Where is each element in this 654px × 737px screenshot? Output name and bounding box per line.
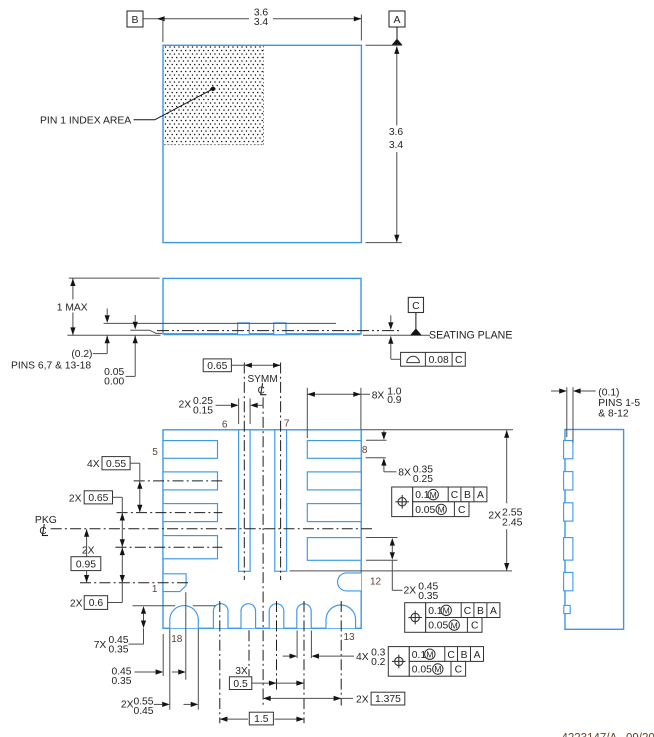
svg-text:M: M	[430, 490, 437, 500]
pin 16 centerline	[248, 630, 250, 676]
svg-text:2X: 2X	[356, 694, 369, 705]
datum A flag	[389, 11, 405, 27]
lead top reference line	[104, 322, 336, 324]
pin 6 left edge extension	[238, 399, 240, 425]
svg-text:B: B	[131, 14, 138, 26]
svg-text:0.95: 0.95	[76, 559, 96, 570]
svg-text:0.05: 0.05	[412, 665, 432, 676]
svg-text:7X: 7X	[94, 640, 107, 651]
pin 6 right edge extension	[249, 399, 251, 425]
pin 17	[213, 604, 228, 629]
svg-text:C: C	[451, 490, 459, 501]
pin 11 top extension	[366, 537, 398, 539]
body left edge extension	[162, 634, 164, 676]
seating plane left segment	[67, 334, 160, 336]
dimension 2X 2.55/2.45	[506, 430, 508, 503]
lead bottom step line	[130, 330, 162, 333]
dimension 2X 1.375	[263, 697, 353, 699]
package horizontal centerline PKG	[51, 528, 372, 530]
pin 14 centerline	[303, 601, 305, 723]
dimension 1.5	[220, 718, 248, 720]
seating plane phantom line	[157, 330, 402, 332]
pin 8 top extension	[366, 439, 387, 441]
pin 1	[163, 574, 186, 592]
bottom view: package body	[163, 430, 361, 629]
pin 8 inner end extension	[306, 388, 308, 438]
svg-text:A: A	[474, 650, 481, 661]
position tolerance frame middle	[405, 603, 500, 633]
svg-text:12: 12	[370, 577, 382, 588]
pin 14 left extension	[296, 631, 298, 659]
svg-text:0.5: 0.5	[233, 679, 248, 690]
long extension line at body top right	[361, 429, 513, 431]
bottom extension line	[366, 242, 402, 244]
side pin 10 bump	[564, 503, 573, 521]
pin 4 row centerline	[134, 480, 223, 482]
svg-text:B: B	[477, 606, 484, 617]
dimension 0.65 between pin6/pin7 centerlines	[203, 359, 231, 372]
pkg centerline glyph	[39, 524, 48, 537]
svg-text:0.1: 0.1	[412, 650, 427, 661]
svg-text:0.45: 0.45	[133, 706, 153, 717]
svg-text:C: C	[412, 300, 420, 312]
pin 2 row centerline	[115, 546, 222, 548]
pin 8 bottom extension	[366, 457, 386, 459]
svg-text:M: M	[438, 505, 445, 515]
svg-text:6: 6	[222, 419, 228, 430]
svg-text:1.375: 1.375	[375, 694, 401, 705]
(0.2) dimension arrows	[106, 309, 108, 316]
svg-text:2X: 2X	[70, 598, 83, 609]
bump top extension	[133, 605, 176, 607]
svg-text:M: M	[451, 620, 458, 630]
side pin 18 small bump	[564, 605, 570, 613]
svg-text:2X: 2X	[121, 699, 134, 710]
long extension line pin 12 top	[290, 570, 512, 572]
svg-text:13: 13	[343, 632, 355, 643]
dimension 2X 0.55/0.45 bump 18 width	[154, 703, 162, 705]
svg-text:2X: 2X	[404, 585, 417, 596]
svg-text:B: B	[461, 650, 468, 661]
svg-text:(0.2): (0.2)	[71, 349, 92, 360]
svg-text:(0.1): (0.1)	[598, 388, 619, 399]
svg-text:0.35: 0.35	[108, 645, 128, 656]
svg-text:A: A	[477, 490, 484, 501]
0.05/0.00 dimension arrows	[134, 315, 136, 322]
svg-text:0.2: 0.2	[371, 657, 386, 668]
pin 3	[163, 504, 218, 522]
svg-text:3X: 3X	[235, 666, 248, 677]
pin 6	[239, 430, 251, 572]
svg-text:PIN 1 INDEX AREA: PIN 1 INDEX AREA	[40, 115, 131, 126]
svg-text:C: C	[447, 650, 455, 661]
datum A triangle	[391, 39, 402, 46]
svg-text:C: C	[471, 621, 479, 632]
side pin 11 bump	[564, 538, 573, 561]
left extension line	[162, 19, 164, 42]
body right edge extension up	[360, 388, 362, 430]
bump right extension	[572, 387, 574, 443]
svg-text:M: M	[443, 606, 450, 616]
svg-text:PKG: PKG	[35, 515, 57, 526]
svg-text:2X: 2X	[179, 400, 192, 411]
datum C flag	[408, 297, 423, 312]
svg-text:1.5: 1.5	[254, 714, 269, 725]
svg-text:0.1: 0.1	[428, 606, 443, 617]
svg-text:0.1: 0.1	[415, 490, 430, 501]
pin 7	[275, 430, 287, 572]
side pin 12 bump	[564, 572, 573, 590]
bump 18 side extensions	[169, 629, 171, 710]
pin 17 centerline	[219, 601, 221, 723]
svg-text:8: 8	[362, 445, 368, 456]
svg-text:8X: 8X	[398, 467, 411, 478]
pin 13 centerline	[340, 601, 342, 706]
pin 7 centerline	[280, 363, 282, 581]
svg-text:SEATING PLANE: SEATING PLANE	[429, 329, 512, 341]
pin 3 row centerline	[117, 512, 223, 514]
pin 11	[307, 538, 361, 561]
pin 16	[241, 604, 256, 629]
position tolerance frame upper	[392, 487, 487, 517]
pin 18	[170, 606, 199, 629]
svg-text:C: C	[455, 665, 463, 676]
datum B flag	[127, 11, 143, 27]
pin 6 centerline	[243, 363, 245, 581]
svg-text:3.4: 3.4	[389, 140, 404, 151]
svg-text:0.65: 0.65	[88, 493, 108, 504]
pin 13	[326, 605, 356, 628]
svg-text:7: 7	[284, 418, 290, 429]
pin 14	[297, 604, 311, 629]
svg-text:C: C	[455, 355, 463, 366]
svg-text:1 MAX: 1 MAX	[57, 303, 88, 314]
stipple bottom dotted edge	[164, 144, 264, 146]
pin 4	[163, 472, 218, 490]
svg-text:0.00: 0.00	[104, 377, 124, 388]
top view: package body outline	[163, 45, 361, 242]
svg-text:8X: 8X	[372, 390, 385, 401]
svg-text:0.05: 0.05	[415, 505, 435, 516]
side pin 9 bump	[564, 472, 573, 490]
seating plane right segment	[363, 334, 430, 336]
top extension line	[366, 44, 402, 46]
vertical symmetry centerline	[262, 398, 264, 706]
svg-text:09/2014: 09/2014	[626, 732, 654, 737]
svg-text:0.35: 0.35	[418, 591, 438, 602]
svg-text:0.25: 0.25	[413, 474, 433, 485]
svg-text:3.6: 3.6	[389, 127, 404, 138]
pin 15 centerline	[276, 601, 278, 690]
side view lead 6	[238, 323, 250, 335]
svg-text:0.05: 0.05	[428, 621, 448, 632]
svg-text:2X: 2X	[82, 546, 95, 557]
side pin 8 bump	[564, 441, 573, 459]
datum C triangle	[410, 328, 422, 335]
stipple right dotted edge	[263, 46, 265, 145]
pin 1 right edge extension	[185, 592, 187, 680]
svg-text:0.35: 0.35	[111, 676, 131, 687]
svg-text:0.15: 0.15	[193, 405, 213, 416]
svg-text:0.9: 0.9	[387, 395, 402, 406]
svg-text:5: 5	[152, 447, 158, 458]
svg-text:1: 1	[152, 584, 158, 595]
bump left extension	[566, 387, 568, 437]
svg-text:4223147/A: 4223147/A	[562, 732, 618, 737]
svg-text:2X: 2X	[69, 494, 82, 505]
symm centerline glyph	[258, 383, 267, 396]
right extension line	[360, 15, 362, 41]
pin 9	[307, 472, 361, 490]
1 MAX top extension	[69, 277, 160, 279]
pin 1 row centerline	[80, 582, 190, 584]
svg-text:4X: 4X	[356, 652, 369, 663]
pin 15	[269, 604, 284, 629]
pin 5	[163, 441, 218, 459]
svg-text:3.4: 3.4	[254, 17, 269, 28]
bump top extension segment	[193, 605, 216, 607]
side view thick bottom edge	[164, 333, 360, 335]
dimension 0.45/0.35 pin 1 width	[135, 671, 156, 673]
pin 1 index area stipple	[164, 46, 264, 145]
pin 2	[163, 536, 218, 559]
pin 12	[338, 573, 362, 591]
svg-text:A: A	[490, 606, 497, 617]
svg-text:& 8-12: & 8-12	[598, 408, 629, 419]
svg-text:4X: 4X	[87, 459, 100, 470]
position tolerance frame lower	[388, 647, 483, 677]
right side view: package body	[565, 430, 624, 630]
profile tolerance frame 0.08 C	[401, 352, 466, 366]
side view: package body	[163, 278, 361, 334]
pin 11 bottom extension	[366, 559, 398, 561]
svg-text:M: M	[426, 649, 433, 659]
svg-text:0.65: 0.65	[207, 361, 227, 372]
svg-text:18: 18	[171, 634, 183, 645]
svg-text:M: M	[434, 664, 441, 674]
pin 10	[307, 504, 361, 522]
svg-text:0.6: 0.6	[89, 598, 104, 609]
horizontal dimension 3.6/3.4	[143, 18, 249, 20]
svg-text:0.55: 0.55	[106, 459, 126, 470]
svg-text:A: A	[393, 14, 400, 26]
svg-text:PINS 6,7 & 13-18: PINS 6,7 & 13-18	[11, 360, 91, 371]
pin 8	[307, 441, 361, 459]
svg-text:0.08: 0.08	[429, 355, 449, 366]
svg-text:C: C	[458, 505, 466, 516]
svg-text:C: C	[464, 606, 472, 617]
svg-text:2X: 2X	[488, 510, 501, 521]
svg-text:2.45: 2.45	[502, 516, 523, 528]
pin 14 right extension	[310, 631, 312, 659]
side view lead 7	[274, 323, 286, 335]
svg-text:B: B	[464, 490, 471, 501]
